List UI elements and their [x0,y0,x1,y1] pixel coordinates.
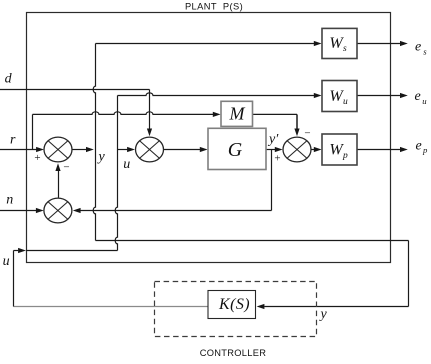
svg-text:−: − [304,128,310,140]
svg-text:e: e [416,139,422,154]
svg-text:p: p [342,151,348,161]
svg-text:e: e [415,40,421,55]
svg-text:G: G [228,139,243,161]
svg-text:p: p [422,145,428,155]
svg-text:u: u [422,96,427,106]
svg-text:+: + [274,153,280,165]
svg-text:u: u [3,254,10,269]
svg-text:CONTROLLER: CONTROLLER [200,348,267,358]
svg-text:r: r [10,133,16,148]
svg-text:−: − [63,162,69,174]
svg-text:d: d [5,72,13,87]
svg-text:u: u [343,97,348,107]
svg-text:PLANT P(S): PLANT P(S) [185,2,243,12]
svg-text:s: s [343,44,347,54]
svg-text:n: n [6,193,13,208]
svg-text:e: e [415,89,421,104]
svg-text:y′: y′ [267,132,279,147]
svg-text:y: y [97,149,106,164]
svg-text:y: y [319,307,328,322]
svg-text:+: + [34,152,40,164]
svg-text:u: u [123,157,130,172]
svg-text:K(S): K(S) [218,296,250,313]
svg-text:M: M [229,104,246,124]
